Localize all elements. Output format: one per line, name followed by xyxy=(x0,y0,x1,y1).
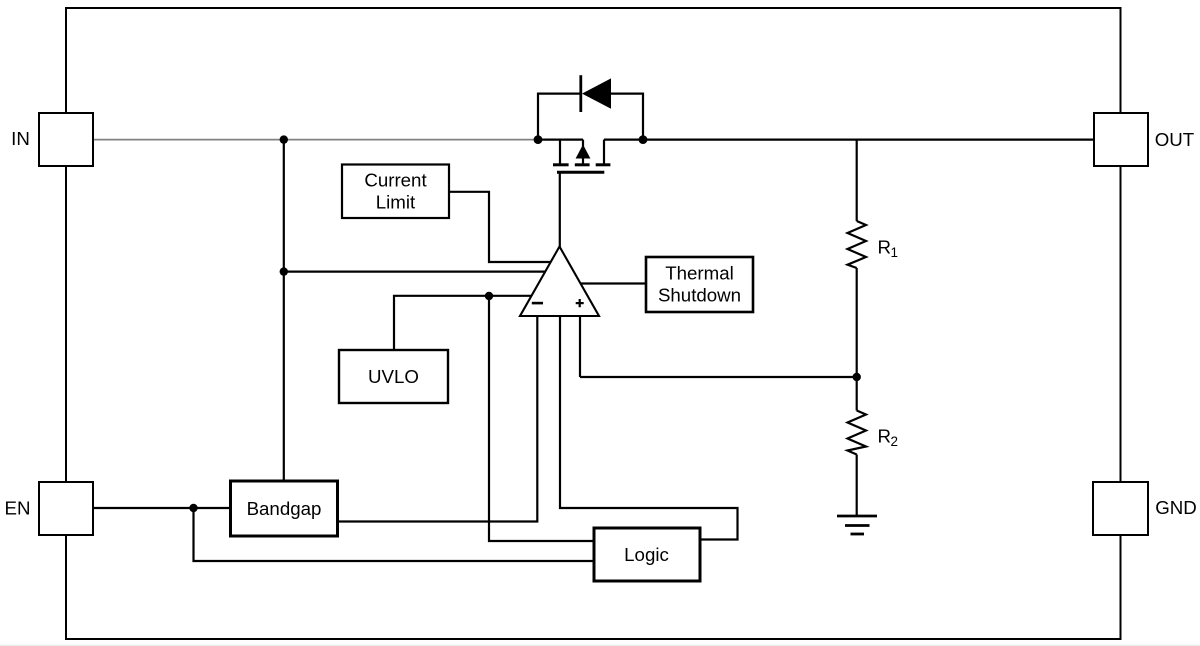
svg-text:UVLO: UVLO xyxy=(368,366,419,387)
svg-text:Current: Current xyxy=(364,170,427,191)
svg-text:OUT: OUT xyxy=(1155,129,1194,150)
svg-text:R: R xyxy=(878,236,892,257)
svg-text:IN: IN xyxy=(11,128,30,149)
svg-text:Shutdown: Shutdown xyxy=(658,285,741,306)
svg-text:1: 1 xyxy=(891,245,899,260)
svg-text:2: 2 xyxy=(891,434,899,449)
svg-text:GND: GND xyxy=(1155,497,1197,518)
svg-text:Thermal: Thermal xyxy=(665,263,734,284)
svg-text:Logic: Logic xyxy=(624,544,669,565)
svg-text:EN: EN xyxy=(5,497,31,518)
svg-text:R: R xyxy=(878,425,892,446)
svg-text:Bandgap: Bandgap xyxy=(247,498,322,519)
svg-text:Limit: Limit xyxy=(376,191,416,212)
